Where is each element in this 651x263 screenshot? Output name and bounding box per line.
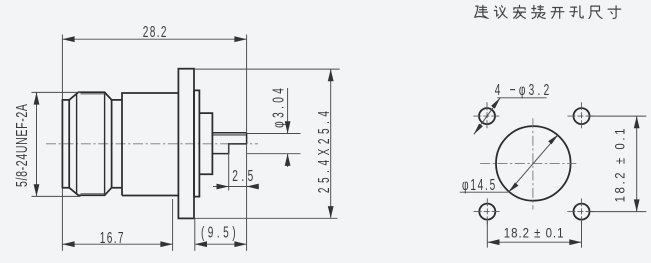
thread runout line left [76,94,78,194]
rear plate [194,90,199,196]
dim 2.5 dimension line [213,186,259,188]
big circle horizontal centerline [480,162,576,164]
crosshair bottom-right hole [567,211,595,213]
label 4-phi3.2 leader underline [497,97,546,99]
solder pin / cup [212,133,247,154]
svg-text:φ3.04: φ3.04 [269,85,287,128]
dim phi3.04 arrowheads [285,121,291,166]
char yi 议 [494,6,507,18]
dim 28.2 dimension line [62,38,246,40]
dim 25.4X25.4 extension lines [194,69,340,218]
front face / extension line column x=62.4 [61,35,63,251]
big circle vertical centerline [532,118,534,209]
char kai 开 [551,8,564,19]
dim bottom 18.2 arrowheads [487,239,581,245]
dim (9.5) dimension line [195,243,247,245]
dim 25.4X25.4 arrowheads [328,69,334,218]
char kong 孔 [570,6,583,18]
dim 16.7 arrowheads [62,241,172,247]
svg-text:(9.5): (9.5) [201,223,239,241]
pin inner wall line [213,134,246,136]
dim bottom 18.2 dimension line [487,241,581,243]
dim right 18.2 dimension line [636,116,638,212]
svg-text:φ14.5: φ14.5 [462,176,497,194]
dim 2.5 arrowheads [217,184,259,190]
thread root lines [81,94,105,194]
svg-text:25.4X25.4: 25.4X25.4 [315,106,333,193]
char an 安 [514,5,526,18]
char zhuang 装 [532,5,545,18]
mounting hole top-left [479,108,495,124]
extension line right column x=246.6 [246,35,248,251]
dim right 18.2 arrowheads [634,116,640,212]
svg-text:5/8-24UNEF-2A: 5/8-24UNEF-2A [13,103,31,187]
svg-text:18.2 ± 0.1: 18.2 ± 0.1 [504,226,565,241]
crosshair top-left hole [473,115,500,117]
thread runout line right [104,92,106,195]
dim 5/8-24UNEF-2A arrowheads [34,92,40,196]
dim 16.7 extension line right [172,199,174,251]
mounting hole bottom-left [479,204,495,220]
front rim inner edge [68,100,70,188]
dim 28.2 arrowheads [62,36,246,42]
centerline of connector axis [46,143,258,145]
dim 25.4X25.4 dimension line [330,69,332,218]
svg-text:4 −φ3.2: 4 −φ3.2 [495,80,553,98]
dim right 18.2 extension lines [590,116,646,212]
svg-text:2.5: 2.5 [232,167,256,185]
mounting hole bottom-right [574,204,590,220]
char cun 寸 [608,6,621,19]
diameter arrowheads [508,135,558,193]
barrel end face [111,100,113,188]
svg-text:16.7: 16.7 [100,229,125,247]
crosshair top-right hole [567,115,595,117]
svg-text:28.2: 28.2 [143,23,168,41]
label phi14.5 underline [460,191,509,193]
neck top and bottom [112,100,122,188]
dim 5/8-24UNEF-2A dimension line [36,92,38,196]
dim (9.5) extension line left [194,218,196,251]
diameter arrow diagonal [508,135,558,193]
dim (9.5) arrowheads [195,241,247,247]
body cylinder [122,93,178,196]
dim bottom 18.2 extension lines [487,221,581,248]
dim 5/8-24UNEF-2A extension lines [32,92,81,196]
dim phi3.04 extension lines [247,134,301,154]
dim 2.5 extension line left [228,144,230,191]
title: hand-drawn CJK strokes 建议安装开孔尺寸 [475,5,621,18]
mounting hole top-right [574,108,590,124]
leader arrowheads [474,98,500,135]
big mounting hole circle [496,126,571,201]
thread barrel outline with chamfers [69,92,111,195]
dim 16.7 dimension line [62,243,172,245]
insulator step [199,113,212,174]
svg-text:18.2 ± 0.1: 18.2 ± 0.1 [612,126,627,202]
rim top and bottom edges [62,100,70,188]
flange plate [178,69,194,219]
char jian 建 [475,5,488,18]
crosshair bottom-left hole [474,211,502,213]
char chi 尺 [589,6,602,18]
dim phi3.04 dimension line [287,88,289,167]
label 4-phi3.2 leader diagonal through hole [474,98,500,135]
